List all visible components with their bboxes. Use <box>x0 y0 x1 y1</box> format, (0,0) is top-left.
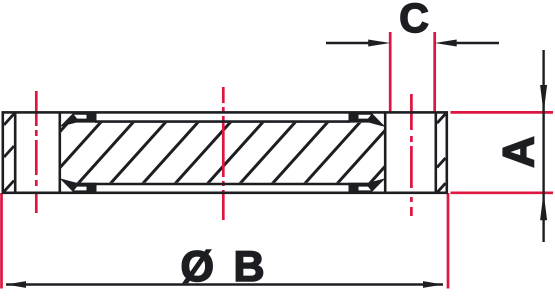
hatch fragments in right rim sliver <box>437 114 446 193</box>
dimension C right arrowhead <box>435 40 457 47</box>
dimension B right extension line (red) <box>447 193 450 289</box>
bottom-left face end flag <box>60 178 97 192</box>
hatch fragments in left rim sliver <box>4 114 14 192</box>
dimension C left arrowhead <box>368 40 390 47</box>
centerline of left bolt hole (red dash-dot) <box>35 91 38 213</box>
top-left face end flag <box>60 113 97 127</box>
flange body outline (section rectangle) <box>3 112 447 192</box>
svg-text:Ø: Ø <box>180 243 213 291</box>
section hatching of flange body <box>0 108 502 196</box>
right bolt hole right edge <box>434 112 437 192</box>
svg-text:A: A <box>495 136 544 168</box>
dimension A line <box>542 50 544 242</box>
left bolt hole right edge <box>58 112 61 192</box>
dimension C left leader line <box>326 42 372 44</box>
dimension A top extension line (red) <box>451 111 554 114</box>
centerline of right bolt hole (red dash-dot) <box>410 94 413 216</box>
top-right face end flag <box>349 113 386 127</box>
dimension C right extension line (red) <box>433 32 436 114</box>
bottom sealing face line <box>95 183 350 186</box>
dimension A bottom extension line (red) <box>451 191 554 194</box>
dimension A bottom arrowhead <box>540 192 547 220</box>
left bolt hole left edge <box>14 112 17 192</box>
right bolt hole left edge <box>384 112 387 192</box>
top sealing face line <box>95 120 350 123</box>
dimension B right arrowhead <box>423 281 443 288</box>
svg-text:B: B <box>233 243 264 291</box>
svg-text:C: C <box>399 0 429 41</box>
dimension B left extension line (red) <box>0 193 3 289</box>
main flange axis centerline (red dash-dot) <box>222 87 225 220</box>
dimension A top arrowhead <box>540 85 547 113</box>
dimension C left extension line (red) <box>389 32 392 114</box>
dimension B line <box>6 283 443 285</box>
dimension C right leader line <box>452 42 499 44</box>
dimension B left arrowhead <box>6 281 26 288</box>
bottom-right face end flag <box>349 178 386 192</box>
